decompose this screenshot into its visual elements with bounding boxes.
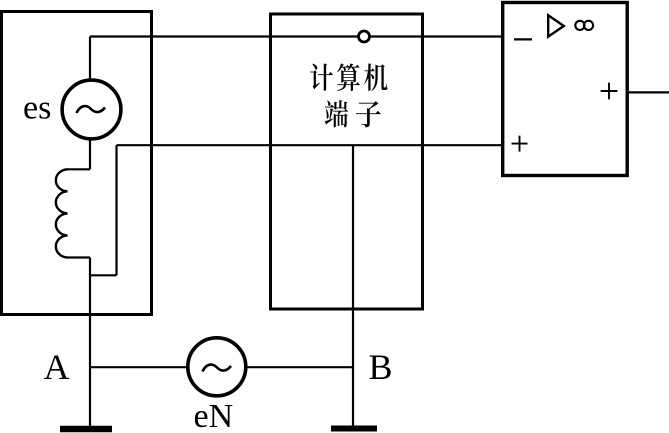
wire: node B vertical — [352, 145, 354, 427]
wire: node A to eN — [90, 366, 188, 368]
inductor L (4 arcs) — [56, 169, 68, 257]
op-amp triangle symbol — [548, 15, 564, 36]
wire: es top vertical — [89, 37, 91, 81]
label char 算 — [337, 63, 360, 91]
wire: coil top connector — [68, 168, 91, 170]
wire: plus input net (horizontal) — [117, 144, 503, 146]
ground (node A) — [60, 426, 112, 433]
ground (node B) — [331, 426, 377, 432]
wire: minus input net (top horizontal) — [90, 35, 503, 37]
wire: plus net vertical drop — [115, 145, 117, 275]
svg-text:B: B — [369, 347, 393, 387]
sine symbol in eN — [203, 365, 232, 372]
label char 子 — [356, 101, 381, 127]
svg-text:A: A — [44, 347, 70, 387]
node (terminal circle) on minus wire — [359, 31, 370, 42]
wire: coil bottom connector — [68, 256, 91, 258]
sine symbol in es — [77, 106, 106, 113]
wire: eN to node B — [246, 366, 353, 368]
svg-text:es: es — [23, 90, 51, 127]
op-amp plus input label — [512, 136, 528, 152]
source es circle — [62, 80, 121, 139]
wire: plus net jog to main vertical — [90, 274, 117, 276]
middle box (computer terminal) — [271, 14, 423, 309]
left box (source enclosure) — [2, 12, 152, 315]
svg-text:eN: eN — [194, 398, 234, 433]
wire: op-amp output — [627, 91, 669, 93]
label char 计 — [310, 64, 333, 91]
op-amp minus input label — [514, 38, 532, 40]
op-amp output plus label — [601, 83, 618, 100]
op-amp infinity symbol — [575, 21, 584, 30]
source eN circle — [188, 338, 246, 396]
op-amp U1 box — [503, 3, 628, 176]
label char 机 — [364, 64, 387, 91]
wire: main vertical to node A and ground — [89, 258, 91, 428]
wire: es bottom vertical — [89, 138, 91, 169]
label char 端 — [325, 100, 348, 127]
